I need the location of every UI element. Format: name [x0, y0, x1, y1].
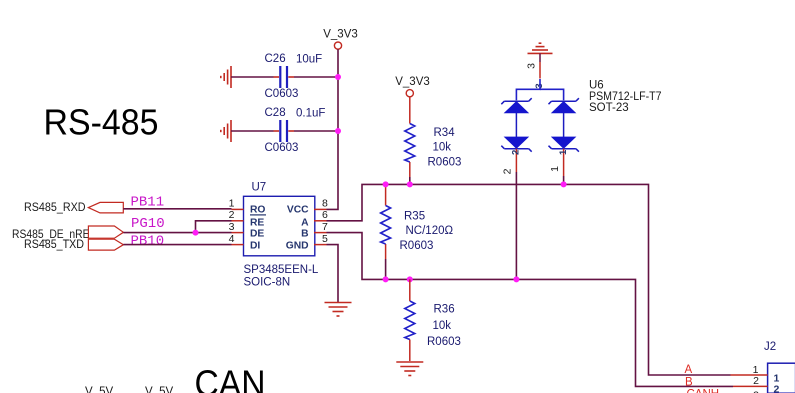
wire net A: pin 6 to top bus to J2 pin 1	[327, 184, 731, 375]
svg-text:A: A	[685, 364, 693, 376]
wire branch to pin 2	[196, 221, 232, 233]
svg-text:2: 2	[753, 375, 759, 387]
svg-text:R0603: R0603	[428, 157, 462, 169]
svg-text:1: 1	[774, 372, 780, 384]
wire V_3V3 rail down to U7 VCC corner	[327, 49, 339, 209]
ground (U7)	[325, 303, 352, 317]
junction C28/rail	[335, 128, 341, 134]
junction U6 pin1 / A bus	[561, 181, 567, 187]
pin 2 stub (U6 left)	[515, 149, 517, 172]
wire pin 5 to ground	[327, 245, 339, 302]
svg-text:U7: U7	[252, 182, 267, 194]
pin 5 GND stub	[314, 244, 327, 246]
J2 pin 1 stub	[731, 374, 768, 376]
ground (R36)	[396, 362, 423, 376]
svg-text:C0603: C0603	[265, 88, 299, 100]
resistor R34	[409, 97, 411, 177]
svg-text:SOIC-8N: SOIC-8N	[244, 277, 291, 289]
wire C26 to rail	[294, 76, 338, 78]
svg-text:DI: DI	[250, 240, 260, 251]
svg-text:R35: R35	[404, 211, 425, 223]
svg-text:R34: R34	[434, 127, 456, 139]
svg-text:V_3V3: V_3V3	[395, 76, 430, 88]
svg-text:C28: C28	[265, 107, 286, 119]
J2 pin 2 stub	[733, 385, 768, 387]
svg-text:3: 3	[753, 390, 759, 393]
svg-text:2: 2	[502, 168, 514, 174]
wire ground to C26	[231, 76, 274, 78]
resistor R36	[409, 279, 411, 361]
junction DE/RE	[193, 230, 199, 236]
svg-text:A: A	[301, 217, 309, 228]
junction U6 pin2 / B bus	[513, 276, 519, 282]
junction C26/rail	[335, 74, 341, 80]
wire net B: pin 7 to bottom bus to J2 pin 2	[327, 233, 734, 387]
svg-text:J2: J2	[764, 341, 776, 353]
op-amp U7 body	[244, 196, 315, 256]
pin 6 A stub	[314, 220, 327, 222]
svg-text:R0603: R0603	[400, 240, 434, 252]
pin 2 RE stub	[232, 220, 244, 222]
wire R34 to top bus	[409, 177, 411, 184]
svg-text:0.1uF: 0.1uF	[296, 108, 325, 120]
TVS U6 internal top connector	[516, 79, 540, 100]
svg-text:RO: RO	[250, 205, 265, 216]
svg-text:U6: U6	[589, 80, 604, 92]
wire TXD to pin 4	[123, 244, 231, 246]
junction R35 top	[383, 181, 389, 187]
svg-text:8: 8	[322, 198, 328, 210]
junction R36 top	[407, 276, 413, 282]
svg-text:4: 4	[229, 233, 235, 245]
diode D1a (left top, zener up)	[501, 98, 531, 104]
wire DE_nRE to pin 3	[123, 232, 231, 234]
svg-text:B: B	[685, 377, 693, 389]
svg-text:2: 2	[229, 209, 235, 221]
svg-text:C0603: C0603	[265, 142, 299, 154]
svg-text:1: 1	[229, 198, 235, 210]
svg-text:R0603: R0603	[427, 336, 461, 348]
ground (C28, pointing left)	[221, 120, 231, 142]
pin 7 B stub	[314, 232, 327, 234]
junction R35 bottom	[383, 276, 389, 282]
svg-text:RS485_RXD: RS485_RXD	[24, 202, 86, 214]
resistor R35	[385, 184, 387, 259]
svg-text:3: 3	[229, 221, 235, 233]
svg-text:CAN: CAN	[195, 363, 266, 393]
svg-text:RE: RE	[250, 217, 264, 228]
connector J2 body	[768, 363, 795, 393]
capacitor C26	[274, 66, 295, 88]
port RS485_RXD arrow	[88, 202, 123, 213]
diode D1b (left bottom, zener down)	[515, 113, 517, 137]
ground (C26, pointing left)	[221, 66, 231, 88]
svg-text:NC/120Ω: NC/120Ω	[406, 225, 454, 237]
wire ground to C28	[231, 130, 274, 132]
svg-text:SOT-23: SOT-23	[589, 102, 629, 114]
svg-text:DE: DE	[250, 229, 264, 240]
svg-text:1: 1	[549, 166, 561, 172]
pin 1 RO stub	[232, 208, 244, 210]
svg-text:3: 3	[526, 63, 538, 69]
port RS485_DE_nRE arrow	[88, 226, 123, 238]
svg-text:VCC: VCC	[287, 205, 309, 216]
svg-text:5: 5	[322, 233, 328, 245]
wire R35 to bottom bus	[385, 259, 387, 279]
pin 8 VCC stub	[314, 208, 327, 210]
pin 3 stub (U6 top)	[539, 53, 541, 62]
diode D2a (right top, zener up)	[549, 98, 579, 104]
svg-text:7: 7	[322, 221, 328, 233]
svg-text:CANH: CANH	[687, 388, 720, 393]
wire U6 pin2 to bottom bus	[515, 172, 517, 279]
svg-text:V_5V: V_5V	[85, 386, 113, 393]
wire U6 pin1 to A bus	[563, 176, 565, 184]
port RS485_TXD arrow	[88, 239, 123, 250]
junction R34 bottom	[407, 181, 413, 187]
svg-text:RS485_TXD: RS485_TXD	[24, 239, 84, 251]
power port V_3V3 circle (R34)	[406, 90, 413, 97]
svg-text:R36: R36	[434, 304, 455, 316]
svg-text:PG10: PG10	[131, 216, 165, 232]
wire RXD to pin 1	[123, 208, 231, 210]
power port V_3V3 circle (top)	[334, 42, 341, 49]
svg-text:V_3V3: V_3V3	[323, 28, 358, 40]
pin 4 DI stub	[232, 244, 244, 246]
wire C28 to rail	[294, 130, 338, 132]
svg-text:C26: C26	[265, 53, 286, 65]
svg-text:SP3485EEN-L: SP3485EEN-L	[244, 264, 319, 276]
capacitor C28	[274, 120, 295, 142]
svg-text:6: 6	[322, 209, 328, 221]
svg-text:2: 2	[511, 150, 522, 155]
svg-text:2: 2	[774, 384, 780, 393]
svg-text:V_5V: V_5V	[145, 386, 173, 393]
svg-text:10uF: 10uF	[296, 54, 322, 66]
svg-text:GND: GND	[286, 240, 309, 251]
pin 1 stub (U6 right)	[563, 149, 565, 176]
svg-text:1: 1	[558, 149, 569, 155]
svg-text:RS-485: RS-485	[44, 101, 159, 142]
svg-text:10k: 10k	[433, 142, 452, 154]
diode D2b (right bottom, zener down)	[563, 113, 565, 137]
svg-text:PB10: PB10	[131, 234, 165, 250]
svg-text:10k: 10k	[433, 320, 452, 332]
svg-text:B: B	[301, 229, 308, 240]
svg-text:PB11: PB11	[131, 194, 165, 210]
pin 3 DE stub	[232, 232, 244, 234]
ground (U6, pointing up)	[528, 43, 553, 53]
